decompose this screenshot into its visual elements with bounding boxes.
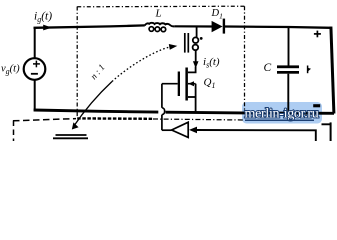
MOSFET channel bar: [185, 68, 188, 101]
wire: top rail from source to inductor: [34, 25, 145, 27]
lower right stub wires: [322, 123, 331, 125]
capacitor C top lead: [288, 27, 290, 66]
bottom rail (right of hop): [166, 112, 334, 113]
current transformer winding: [193, 37, 199, 43]
n:1 annotation curve (dotted upper part): [112, 47, 169, 81]
svg-text:is(t): is(t): [203, 56, 220, 70]
lower-left dashed box corner, top edge: [13, 119, 76, 121]
bottom rail (left of hop): [34, 110, 159, 112]
capacitor C bottom lead: [287, 74, 289, 113]
boundary box bottom edge dash-dot segment: [153, 119, 244, 120]
n:1 annotation curve (solid lower part): [74, 82, 113, 127]
capacitor C plates: [277, 65, 299, 68]
dash-dot boundary box right edge: [244, 6, 246, 112]
MOSFET source stub: [188, 96, 196, 98]
svg-text:vg(t): vg(t): [1, 64, 20, 77]
driver input wire: [197, 130, 316, 141]
polarity dot: [200, 37, 203, 40]
dash-dot boundary box (converter) left edge: [76, 7, 78, 119]
wire: v_g bottom lead: [34, 80, 36, 111]
diode D1: [212, 21, 223, 32]
n:1 curve arrowhead to ground: [72, 122, 79, 129]
output + sign: [314, 33, 321, 35]
svg-text:ig(t): ig(t): [34, 11, 52, 25]
wire: v_g top lead: [34, 27, 36, 58]
ground symbol: [56, 134, 87, 136]
wire: transformer to arrow: [195, 50, 197, 62]
gate lead: [162, 83, 178, 85]
wire: top rail diode to right corner: [225, 27, 331, 28]
MOSFET source vertical to rail: [195, 84, 197, 112]
small cropped label tick (v): [307, 66, 309, 74]
current transformer core: [184, 33, 186, 53]
MOSFET body stub with arrow: [188, 83, 196, 85]
lower-left dashed box corner, left edge: [13, 121, 15, 142]
svg-text:C: C: [264, 62, 272, 74]
voltage source v_g: [24, 58, 46, 80]
output right edge wire: [331, 27, 334, 114]
n:1 curve arrowhead to transformer: [169, 44, 178, 50]
watermark underline: [245, 119, 314, 121]
gate wire down to driver (with hop over rail): [161, 84, 163, 108]
MOSFET Q1 drain lead: [188, 67, 196, 73]
wire: top rail inductor to diode: [174, 25, 212, 27]
svg-text:merlin-igor.ru: merlin-igor.ru: [245, 107, 319, 122]
current arrow i_s: [193, 61, 199, 68]
driver triangle U1: [172, 122, 189, 137]
driver input arrowhead: [189, 127, 197, 134]
watermark box: [242, 102, 322, 124]
output - sign (over watermark): [313, 104, 320, 107]
dash-dot boundary box top edge: [77, 5, 244, 8]
svg-text:L: L: [155, 8, 162, 20]
MOSFET gate bar: [178, 72, 180, 97]
arrow i_g on top rail: [43, 25, 52, 31]
wire: junction drop to sense transformer: [196, 27, 198, 39]
inductor L: [145, 23, 174, 27]
boundary box bottom edge dense segment: [77, 117, 153, 120]
